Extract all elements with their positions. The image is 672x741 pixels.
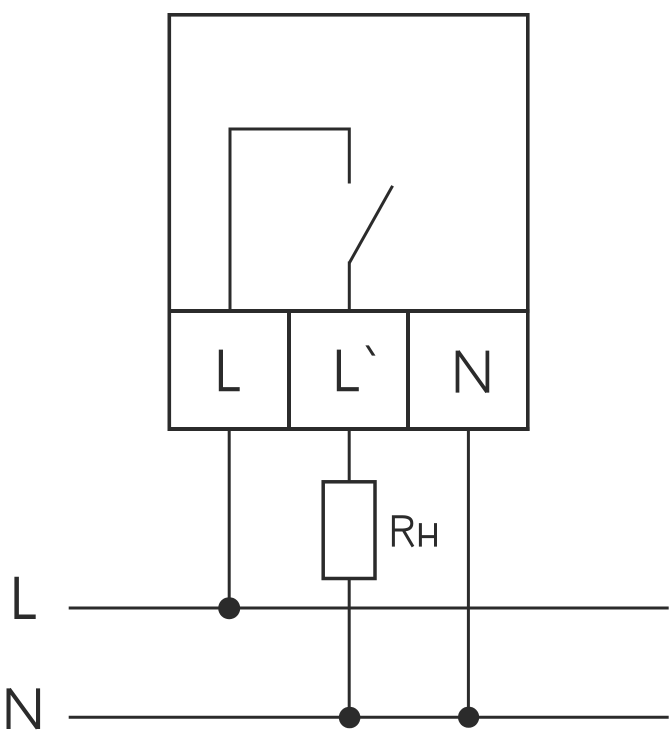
wire: terminal L up, switch top bar, switch fixed contact (230, 129, 349, 311)
terminal row bottom line (168, 427, 530, 431)
resistor label R (393, 517, 413, 547)
junction node on L line (218, 597, 240, 619)
terminal divider L`/N (406, 311, 410, 430)
L supply line (69, 607, 669, 610)
wire: switch blade down to terminal L` (348, 262, 351, 312)
terminal row top line (168, 309, 530, 313)
terminal label L (221, 350, 240, 390)
terminal label L` accent (365, 345, 375, 355)
switch S1 blade (349, 186, 392, 263)
resistor Rn body (323, 482, 375, 579)
wire: terminal N down to N line node (467, 430, 470, 718)
terminal divider L/L` (287, 311, 291, 430)
wire: resistor down to N line node (348, 579, 351, 718)
device outline box U1 (169, 15, 528, 429)
junction node N on N line (458, 707, 479, 728)
terminal label N (458, 351, 488, 393)
wire: terminal L down to L line node (228, 430, 231, 609)
net label L (17, 577, 36, 617)
wire: terminal L` down to resistor (348, 430, 351, 483)
terminal label L` letter (339, 350, 359, 390)
resistor label n (Cyrillic) (420, 523, 435, 547)
N supply line (69, 716, 669, 719)
net label N (9, 688, 39, 729)
junction node L` on N line (339, 707, 361, 729)
